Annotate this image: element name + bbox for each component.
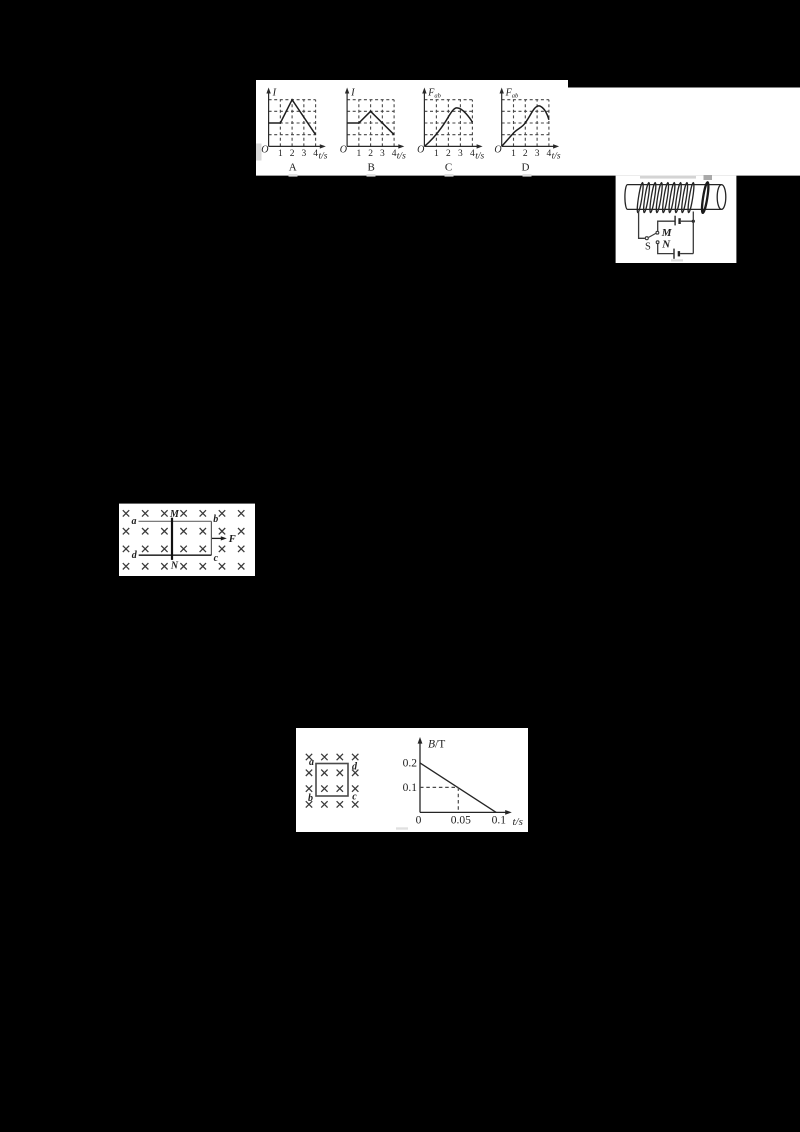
graph D dashed grid <box>502 100 549 147</box>
svg-text:a: a <box>309 757 314 768</box>
graph A dashed grid <box>269 100 316 147</box>
svg-text:3: 3 <box>458 149 463 159</box>
graph B dashed grid <box>347 100 394 147</box>
graph C x-axis <box>424 145 478 147</box>
wire M contact to battery 1 <box>658 221 675 231</box>
graph B x-axis <box>347 145 400 147</box>
svg-text:B/T: B/T <box>428 739 445 751</box>
B-t x-axis arrow <box>505 810 512 815</box>
graph D x-axis <box>502 145 556 147</box>
svg-text:a: a <box>132 516 137 527</box>
white panel: rails in field <box>119 504 255 576</box>
right vertical wire to coil <box>692 212 694 254</box>
switch pivot contact <box>645 237 648 240</box>
svg-text:C: C <box>445 162 452 174</box>
svg-text:t/s: t/s <box>397 152 406 162</box>
coil turn 7 <box>674 182 682 213</box>
dashed guide lines <box>420 787 458 812</box>
scan artifact gray marks <box>256 144 712 830</box>
graph B y-axis arrow <box>345 88 349 94</box>
wire battery 1 to junction <box>681 220 694 222</box>
svg-text:t/s: t/s <box>513 816 523 828</box>
svg-text:I: I <box>272 87 277 98</box>
svg-text:O: O <box>494 144 501 155</box>
graph C y-axis arrow <box>422 88 426 94</box>
svg-text:N: N <box>170 560 179 571</box>
B-t x-axis <box>420 811 508 813</box>
svg-text:I: I <box>350 87 355 98</box>
wire from coil left end down to switch <box>639 211 645 238</box>
B-t y-axis <box>419 742 421 813</box>
svg-text:t/s: t/s <box>552 152 561 162</box>
rail a-b top <box>139 520 212 522</box>
field cross marks <box>306 754 359 808</box>
graph B y-axis <box>346 92 348 146</box>
svg-text:M: M <box>661 227 673 239</box>
coil turn 9 <box>687 182 695 213</box>
svg-text:c: c <box>352 791 357 802</box>
wire battery 2 to right wire <box>680 253 693 255</box>
B-t y-axis arrow <box>418 737 423 744</box>
B decay line <box>420 763 496 813</box>
contact N <box>656 241 659 244</box>
graph B current curve <box>347 111 394 134</box>
graph A x-axis <box>269 145 322 147</box>
svg-text:c: c <box>214 553 219 564</box>
svg-text:2: 2 <box>368 149 373 159</box>
graph D y-axis <box>501 92 503 146</box>
svg-text:3: 3 <box>380 149 385 159</box>
svg-text:b: b <box>213 514 218 525</box>
square loop abcd <box>316 764 348 797</box>
coil turn 6 <box>668 182 676 213</box>
coil turn 2 <box>642 182 650 213</box>
svg-text:1: 1 <box>434 149 439 159</box>
switch blade S <box>649 233 656 237</box>
svg-text:0: 0 <box>416 814 422 826</box>
battery 1 short plate <box>678 218 680 224</box>
coil turn 4 <box>655 182 663 213</box>
field cross marks <box>123 510 245 569</box>
wire N contact down to battery 2 <box>658 244 674 254</box>
svg-text:O: O <box>417 144 424 155</box>
svg-text:0.1: 0.1 <box>403 782 418 794</box>
force arrow F <box>212 537 223 539</box>
svg-text:2: 2 <box>523 149 528 159</box>
white panel: loop and B-t graph <box>296 728 528 832</box>
coil turn 5 <box>662 182 670 213</box>
solenoid tube right face <box>717 185 726 210</box>
graph A y-axis arrow <box>266 88 270 94</box>
graph D x-axis arrow <box>553 144 559 148</box>
coil turn 3 <box>649 182 657 213</box>
svg-text:M: M <box>169 509 180 520</box>
svg-text:O: O <box>340 144 347 155</box>
graph A current curve <box>269 100 316 135</box>
contact M <box>656 231 659 234</box>
svg-text:S: S <box>645 241 651 252</box>
graph C x-axis arrow <box>477 144 483 148</box>
svg-text:O: O <box>261 144 268 155</box>
graph C dashed grid <box>424 100 472 147</box>
rod MN <box>171 518 173 560</box>
battery 1 long plate <box>674 216 676 226</box>
svg-text:0.05: 0.05 <box>451 814 471 826</box>
svg-text:t/s: t/s <box>319 152 328 162</box>
solenoid tube body <box>625 185 722 210</box>
single dark loop <box>701 182 710 213</box>
svg-text:D: D <box>522 162 530 174</box>
graph C y-axis <box>423 92 425 146</box>
svg-text:1: 1 <box>511 149 516 159</box>
svg-text:b: b <box>308 793 313 804</box>
battery 2 long plate <box>673 249 675 259</box>
svg-text:A: A <box>289 162 297 174</box>
svg-text:3: 3 <box>301 149 306 159</box>
svg-text:t/s: t/s <box>475 152 484 162</box>
graph C force curve <box>424 108 472 147</box>
graph A y-axis <box>268 92 270 146</box>
coil turn 1 <box>636 182 644 213</box>
coil turn 8 <box>681 182 689 213</box>
white panel: solenoid circuit <box>616 176 737 263</box>
junction node <box>692 220 695 223</box>
rail d-c bottom <box>139 554 212 556</box>
svg-text:1: 1 <box>278 149 283 159</box>
svg-text:0.2: 0.2 <box>403 757 418 769</box>
svg-text:1: 1 <box>356 149 361 159</box>
svg-text:4: 4 <box>313 149 318 159</box>
svg-text:B: B <box>368 162 375 174</box>
battery 2 short plate <box>678 251 680 256</box>
graph A x-axis arrow <box>320 144 326 148</box>
wire b-c right edge <box>210 521 212 555</box>
svg-text:2: 2 <box>290 149 295 159</box>
graph D force curve <box>502 106 549 146</box>
svg-text:2: 2 <box>446 149 451 159</box>
svg-text:0.1: 0.1 <box>492 814 507 826</box>
white panel: graphs A-D strip <box>256 80 800 176</box>
svg-text:F: F <box>228 534 236 545</box>
svg-text:3: 3 <box>535 149 540 159</box>
graph D y-axis arrow <box>500 88 504 94</box>
svg-text:N: N <box>661 238 671 250</box>
graph B x-axis arrow <box>398 144 404 148</box>
